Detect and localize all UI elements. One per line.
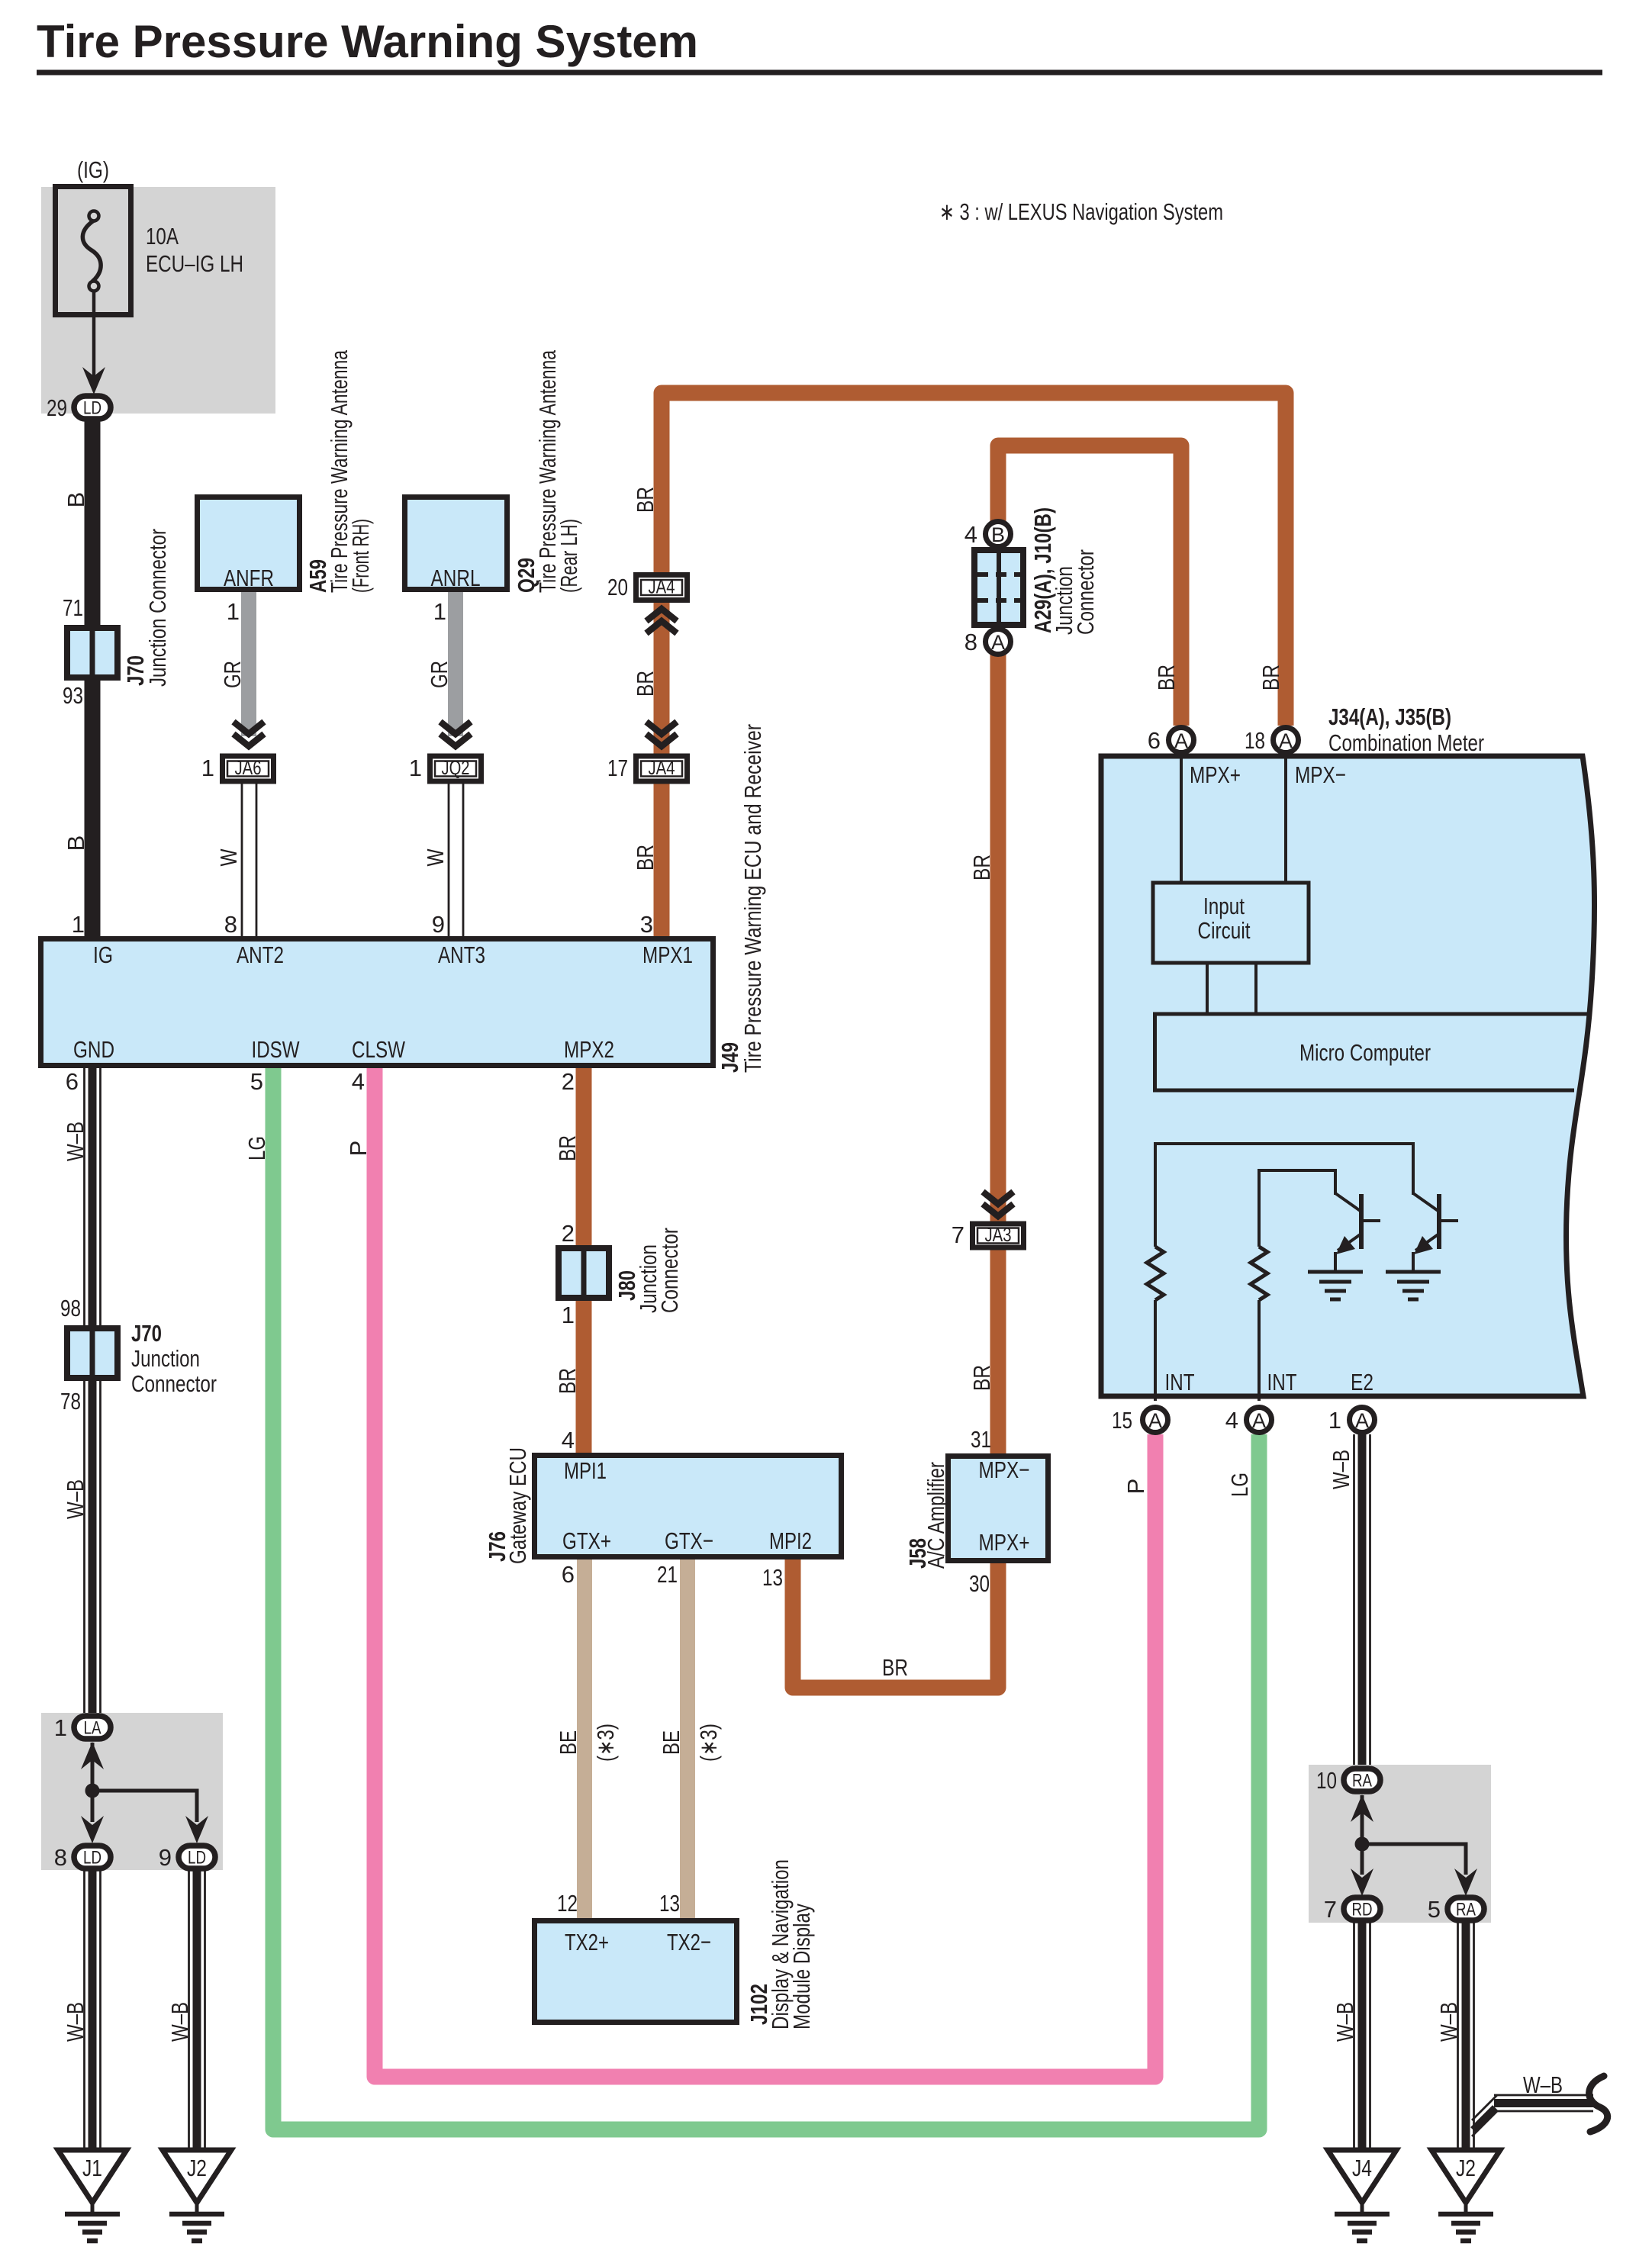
junction connector J70 (lower) xyxy=(67,1325,118,1381)
resistor 1 xyxy=(1147,1247,1164,1300)
svg-text:IG: IG xyxy=(93,941,113,968)
wire MPX- into input circuit xyxy=(1284,756,1287,883)
chevron arrow into JA3 xyxy=(983,1192,1013,1216)
internal wire to resistor 1 and right transistor xyxy=(1155,1144,1413,1247)
svg-text:Micro Computer: Micro Computer xyxy=(1299,1039,1431,1066)
fuse 10A ECU-IG LH xyxy=(56,187,131,315)
svg-text:71: 71 xyxy=(63,594,83,621)
svg-text:3: 3 xyxy=(640,911,653,938)
svg-text:W–B: W–B xyxy=(1328,1450,1354,1489)
wire resistor 1 to INT(15) xyxy=(1154,1300,1157,1401)
svg-text:1: 1 xyxy=(1328,1407,1341,1434)
svg-text:W–B: W–B xyxy=(166,2002,193,2042)
svg-text:J2: J2 xyxy=(187,2155,207,2181)
svg-text:LD: LD xyxy=(83,398,101,419)
junction dot xyxy=(1355,1837,1370,1852)
svg-text:RD: RD xyxy=(1352,1900,1373,1920)
pin circle B xyxy=(986,522,1011,547)
gateway ECU J76 xyxy=(535,1456,842,1557)
arrow into RA (5) xyxy=(1454,1868,1477,1896)
connector LD (9) xyxy=(179,1846,215,1868)
svg-text:BR: BR xyxy=(968,1365,995,1391)
wire BR junction connector B to meter pin 6 xyxy=(998,446,1181,726)
svg-text:A: A xyxy=(1355,1409,1369,1432)
svg-text:ANRL: ANRL xyxy=(431,565,481,591)
svg-text:∗ 3 : w/ LEXUS Navigation Syst: ∗ 3 : w/ LEXUS Navigation System xyxy=(939,198,1223,225)
svg-text:(∗3): (∗3) xyxy=(592,1724,619,1762)
svg-text:LG: LG xyxy=(1226,1473,1253,1497)
wire W-B LD(9) to ground J2 xyxy=(189,1871,205,2150)
svg-text:93: 93 xyxy=(63,682,83,709)
svg-text:8: 8 xyxy=(964,629,977,655)
svg-text:BR: BR xyxy=(554,1368,581,1394)
wire BR MPX1 to combination meter pin 18 xyxy=(662,393,1286,936)
junction connector J70 (upper) xyxy=(67,625,118,681)
wire RA to RD/RA junction xyxy=(1362,1795,1466,1875)
wire LG ECU IDSW to meter INT(4) xyxy=(273,1068,1259,2129)
chevron arrow up out of JA4 (20) xyxy=(646,609,677,633)
svg-text:13: 13 xyxy=(659,1890,680,1917)
chevron arrow into JA4 (17) xyxy=(646,722,677,746)
svg-text:6: 6 xyxy=(66,1068,79,1095)
wire BE GTX+ to TX2+ xyxy=(577,1559,592,1918)
svg-text:9: 9 xyxy=(432,911,445,938)
pin circle A (6) xyxy=(1169,728,1194,753)
svg-text:BR: BR xyxy=(968,855,995,880)
ground J4 xyxy=(1328,2150,1396,2241)
svg-text:(∗3): (∗3) xyxy=(695,1724,722,1762)
wires input circuit to micro computer xyxy=(1206,963,1209,1013)
svg-text:31: 31 xyxy=(971,1426,991,1453)
svg-text:B: B xyxy=(991,523,1005,546)
svg-text:8: 8 xyxy=(54,1844,67,1871)
svg-text:BR: BR xyxy=(632,671,659,697)
svg-text:A/C Amplifier: A/C Amplifier xyxy=(923,1462,949,1569)
svg-text:E2: E2 xyxy=(1351,1369,1373,1395)
pin circle A (1) xyxy=(1350,1408,1375,1433)
svg-text:GTX+: GTX+ xyxy=(562,1527,611,1554)
svg-text:BR: BR xyxy=(554,1135,581,1161)
svg-text:1: 1 xyxy=(54,1714,67,1741)
ground J1 xyxy=(58,2150,127,2241)
svg-text:MPX2: MPX2 xyxy=(564,1036,614,1063)
svg-text:2: 2 xyxy=(562,1220,575,1247)
svg-text:W: W xyxy=(422,848,449,867)
pin circle A (4) xyxy=(1247,1408,1272,1433)
wire P ECU CLSW to meter INT(15) xyxy=(375,1068,1155,2077)
wire break symbol xyxy=(1589,2076,1608,2132)
svg-text:4: 4 xyxy=(352,1068,365,1095)
pin circle A (15) xyxy=(1143,1408,1168,1433)
svg-text:W–B: W–B xyxy=(1435,2002,1462,2042)
svg-text:W–B: W–B xyxy=(62,1122,89,1161)
svg-text:Connector: Connector xyxy=(1072,549,1099,635)
svg-text:30: 30 xyxy=(969,1570,990,1597)
ECU J49 Tire Pressure Warning ECU and Receiver xyxy=(41,939,713,1066)
svg-text:JQ2: JQ2 xyxy=(442,756,470,779)
svg-text:J70: J70 xyxy=(131,1320,162,1347)
svg-text:98: 98 xyxy=(60,1295,81,1321)
wire GR ANFR to JA6 xyxy=(241,592,256,736)
svg-text:1: 1 xyxy=(227,598,240,625)
ground J2 (left) xyxy=(163,2150,231,2241)
svg-text:17: 17 xyxy=(607,755,628,781)
svg-text:BR: BR xyxy=(632,487,659,513)
wire W JA6 to ECU ANT2 xyxy=(242,784,256,936)
pin circle A xyxy=(986,629,1011,655)
connector JA6 xyxy=(223,756,274,781)
ground relay gray box (right) xyxy=(1309,1765,1491,1923)
ground J2 (right) xyxy=(1431,2150,1500,2241)
resistor 2 xyxy=(1251,1247,1267,1300)
wire W-B meter E2 down to RA xyxy=(1354,1434,1370,1766)
svg-text:9: 9 xyxy=(159,1844,172,1871)
svg-text:A: A xyxy=(1279,729,1293,752)
svg-text:JA4: JA4 xyxy=(649,756,675,779)
svg-text:BE: BE xyxy=(658,1730,684,1755)
svg-text:29: 29 xyxy=(47,394,67,421)
transistor Q left xyxy=(1335,1193,1380,1272)
svg-text:GR: GR xyxy=(219,661,246,688)
svg-text:LA: LA xyxy=(84,1718,101,1739)
wire W-B branch to body ground (break) xyxy=(1472,2095,1593,2136)
micro computer block xyxy=(1155,1014,1589,1090)
connector LD (8) xyxy=(74,1846,111,1868)
svg-text:(IG): (IG) xyxy=(77,156,109,183)
wire B (black) fuse to ECU IG xyxy=(85,421,101,936)
svg-text:Circuit: Circuit xyxy=(1198,917,1251,944)
svg-text:W–B: W–B xyxy=(62,1479,89,1519)
antenna ANFR A59 xyxy=(198,497,300,592)
svg-text:INT: INT xyxy=(1165,1369,1195,1395)
wire BR junction connector A down to JA3 and J58 xyxy=(990,655,1006,1453)
arrow into LD (9) xyxy=(185,1816,208,1843)
svg-text:BR: BR xyxy=(632,845,659,871)
svg-text:Module Display: Module Display xyxy=(788,1904,815,2029)
svg-text:J2: J2 xyxy=(1456,2155,1476,2181)
svg-text:Input: Input xyxy=(1203,893,1245,919)
svg-text:7: 7 xyxy=(952,1222,964,1248)
svg-text:B: B xyxy=(63,492,89,508)
svg-text:W–B: W–B xyxy=(1332,2002,1358,2042)
svg-text:B: B xyxy=(63,835,89,851)
connector JA4 (20) xyxy=(636,575,688,600)
svg-text:TX2−: TX2− xyxy=(667,1929,711,1955)
svg-text:P: P xyxy=(1122,1479,1149,1495)
A/C amplifier J58 xyxy=(948,1456,1048,1561)
svg-text:MPI1: MPI1 xyxy=(564,1457,607,1484)
arrow into RD (7) xyxy=(1351,1868,1373,1896)
svg-text:18: 18 xyxy=(1245,727,1265,754)
connector JQ2 xyxy=(430,756,481,781)
svg-text:1: 1 xyxy=(433,598,446,625)
wire BR ECU MPX2 to J76 MPI1 xyxy=(576,1068,592,1453)
svg-text:Connector: Connector xyxy=(656,1228,683,1313)
wire W-B ECU GND down to LA xyxy=(85,1068,101,1714)
internal wire to resistor 2 and left transistor xyxy=(1259,1170,1335,1247)
junction connector A29(A) J10(B) xyxy=(974,549,1023,626)
svg-text:P: P xyxy=(345,1141,372,1157)
fuse area gray background xyxy=(41,187,275,414)
svg-text:BE: BE xyxy=(555,1730,581,1755)
wire LA to LD junction xyxy=(92,1743,197,1822)
svg-text:JA4: JA4 xyxy=(649,575,675,598)
svg-text:W–B: W–B xyxy=(1523,2071,1563,2098)
svg-text:1: 1 xyxy=(562,1302,575,1328)
svg-text:A: A xyxy=(1148,1409,1162,1432)
svg-text:Combination Meter: Combination Meter xyxy=(1328,729,1484,756)
transistor Q right xyxy=(1413,1193,1458,1272)
connector RA (5) xyxy=(1448,1897,1484,1920)
chevron arrow into JQ2 xyxy=(440,722,471,746)
arrow into LD (8) xyxy=(81,1816,104,1843)
svg-text:Tire Pressure Warning System: Tire Pressure Warning System xyxy=(37,16,698,67)
svg-text:RA: RA xyxy=(1352,1771,1372,1791)
ground (left transistor) xyxy=(1308,1272,1363,1299)
svg-text:BR: BR xyxy=(1258,665,1284,690)
svg-text:A: A xyxy=(1174,729,1188,752)
svg-text:4: 4 xyxy=(964,521,977,548)
svg-text:15: 15 xyxy=(1112,1407,1132,1434)
svg-text:RA: RA xyxy=(1456,1900,1476,1920)
svg-text:MPX−: MPX− xyxy=(979,1456,1030,1483)
title rule xyxy=(37,70,1602,76)
chevron arrow into JA6 xyxy=(233,722,264,746)
svg-text:JA6: JA6 xyxy=(235,756,262,779)
ground relay gray box (left) xyxy=(41,1713,223,1870)
svg-text:10: 10 xyxy=(1316,1767,1337,1794)
svg-text:ANT2: ANT2 xyxy=(237,941,284,968)
pin circle A (18) xyxy=(1274,728,1299,753)
svg-text:MPX1: MPX1 xyxy=(642,941,693,968)
svg-text:1: 1 xyxy=(201,755,214,781)
wire W-B LD(8) to ground J1 xyxy=(85,1871,101,2150)
svg-text:CLSW: CLSW xyxy=(352,1036,406,1063)
svg-text:LD: LD xyxy=(83,1848,101,1868)
svg-text:MPX+: MPX+ xyxy=(979,1529,1030,1556)
svg-text:Junction: Junction xyxy=(131,1345,200,1372)
svg-text:GND: GND xyxy=(73,1036,114,1063)
wire GR ANRL to JQ2 xyxy=(448,592,463,736)
svg-text:J1: J1 xyxy=(82,2155,102,2181)
svg-text:6: 6 xyxy=(1148,727,1161,754)
svg-text:21: 21 xyxy=(657,1561,678,1588)
svg-text:8: 8 xyxy=(224,911,237,938)
combination meter J34(A) J35(B) xyxy=(1101,756,1595,1396)
svg-text:6: 6 xyxy=(562,1561,575,1588)
svg-text:W–B: W–B xyxy=(62,2002,89,2042)
svg-text:1: 1 xyxy=(72,911,85,938)
svg-text:BR: BR xyxy=(1153,665,1180,690)
display and navigation module display J102 xyxy=(535,1921,737,2023)
connector LD (29) xyxy=(74,396,111,419)
wire from fuse to connector 29 xyxy=(92,288,96,381)
svg-text:INT: INT xyxy=(1267,1369,1297,1395)
connector LA (1) xyxy=(74,1716,111,1739)
wire resistor 2 to INT(4) xyxy=(1258,1300,1261,1401)
svg-text:20: 20 xyxy=(607,574,628,600)
arrow up out of RA xyxy=(1351,1794,1373,1822)
svg-text:ANT3: ANT3 xyxy=(438,941,485,968)
svg-text:5: 5 xyxy=(250,1068,263,1095)
svg-text:Junction Connector: Junction Connector xyxy=(144,529,171,687)
svg-text:1: 1 xyxy=(409,755,422,781)
svg-text:4: 4 xyxy=(562,1427,575,1453)
svg-text:7: 7 xyxy=(1324,1896,1337,1923)
arrow into pin 29 xyxy=(82,367,105,394)
svg-text:13: 13 xyxy=(762,1564,783,1591)
svg-text:Connector: Connector xyxy=(131,1370,217,1397)
input circuit block xyxy=(1153,883,1309,963)
svg-text:BR: BR xyxy=(882,1654,908,1681)
svg-text:10A: 10A xyxy=(146,223,179,249)
junction connector J80 xyxy=(559,1245,609,1301)
wire MPX+ into input circuit xyxy=(1180,756,1183,883)
antenna ANRL Q29 xyxy=(405,497,507,592)
wire BE GTX- to TX2- xyxy=(680,1559,695,1918)
connector RA (10) xyxy=(1344,1769,1380,1791)
wire W-B RA(5) to ground J2 xyxy=(1458,1923,1474,2150)
svg-text:5: 5 xyxy=(1428,1896,1441,1923)
svg-text:(Front RH): (Front RH) xyxy=(347,519,374,593)
svg-text:W: W xyxy=(215,848,242,867)
svg-text:78: 78 xyxy=(60,1388,81,1415)
svg-text:Tire Pressure Warning ECU and: Tire Pressure Warning ECU and Receiver xyxy=(739,724,766,1073)
svg-text:ECU–IG LH: ECU–IG LH xyxy=(146,250,243,277)
wire W-B RD(7) to ground J4 xyxy=(1354,1923,1370,2150)
svg-text:GR: GR xyxy=(426,661,452,688)
arrow up out of LA xyxy=(81,1742,104,1769)
junction dot xyxy=(85,1784,100,1798)
connector RD (7) xyxy=(1344,1897,1380,1920)
svg-text:(Rear LH): (Rear LH) xyxy=(555,519,582,593)
svg-text:A: A xyxy=(1252,1409,1266,1432)
svg-text:TX2+: TX2+ xyxy=(565,1929,609,1955)
wire BR J58 MPX+ to J76 MPI2 xyxy=(793,1559,998,1688)
svg-text:J4: J4 xyxy=(1352,2155,1372,2181)
svg-text:MPX−: MPX− xyxy=(1295,761,1346,788)
svg-text:12: 12 xyxy=(557,1890,578,1917)
svg-text:MPX+: MPX+ xyxy=(1190,761,1241,788)
svg-text:J34(A), J35(B): J34(A), J35(B) xyxy=(1328,703,1451,730)
svg-text:A: A xyxy=(991,631,1005,654)
svg-text:IDSW: IDSW xyxy=(252,1036,301,1063)
svg-text:MPI2: MPI2 xyxy=(769,1527,812,1554)
svg-text:Gateway ECU: Gateway ECU xyxy=(504,1447,531,1564)
ground (right transistor) xyxy=(1386,1272,1441,1299)
svg-text:GTX−: GTX− xyxy=(665,1527,713,1554)
wire W JQ2 to ECU ANT3 xyxy=(449,784,463,936)
svg-text:LD: LD xyxy=(188,1848,206,1868)
connector JA4 (17) xyxy=(636,756,688,781)
svg-text:JA3: JA3 xyxy=(985,1223,1012,1246)
svg-text:ANFR: ANFR xyxy=(224,565,274,591)
connector JA3 xyxy=(973,1223,1024,1247)
svg-text:4: 4 xyxy=(1225,1407,1238,1434)
svg-text:2: 2 xyxy=(562,1068,575,1095)
svg-text:LG: LG xyxy=(243,1136,270,1160)
